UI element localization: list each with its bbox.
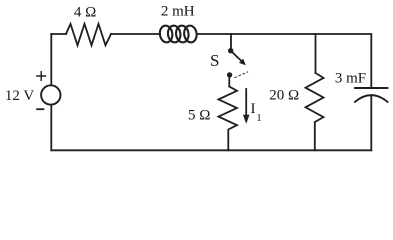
svg-text:1: 1 (256, 112, 262, 124)
svg-text:S: S (210, 51, 219, 70)
svg-text:20 Ω: 20 Ω (269, 88, 299, 104)
svg-text:2 mH: 2 mH (161, 4, 195, 20)
svg-text:4 Ω: 4 Ω (74, 5, 96, 21)
svg-text:3 mF: 3 mF (335, 71, 366, 87)
svg-text:5 Ω: 5 Ω (188, 108, 210, 124)
svg-text:12 V: 12 V (5, 88, 34, 104)
svg-text:I: I (251, 101, 256, 117)
